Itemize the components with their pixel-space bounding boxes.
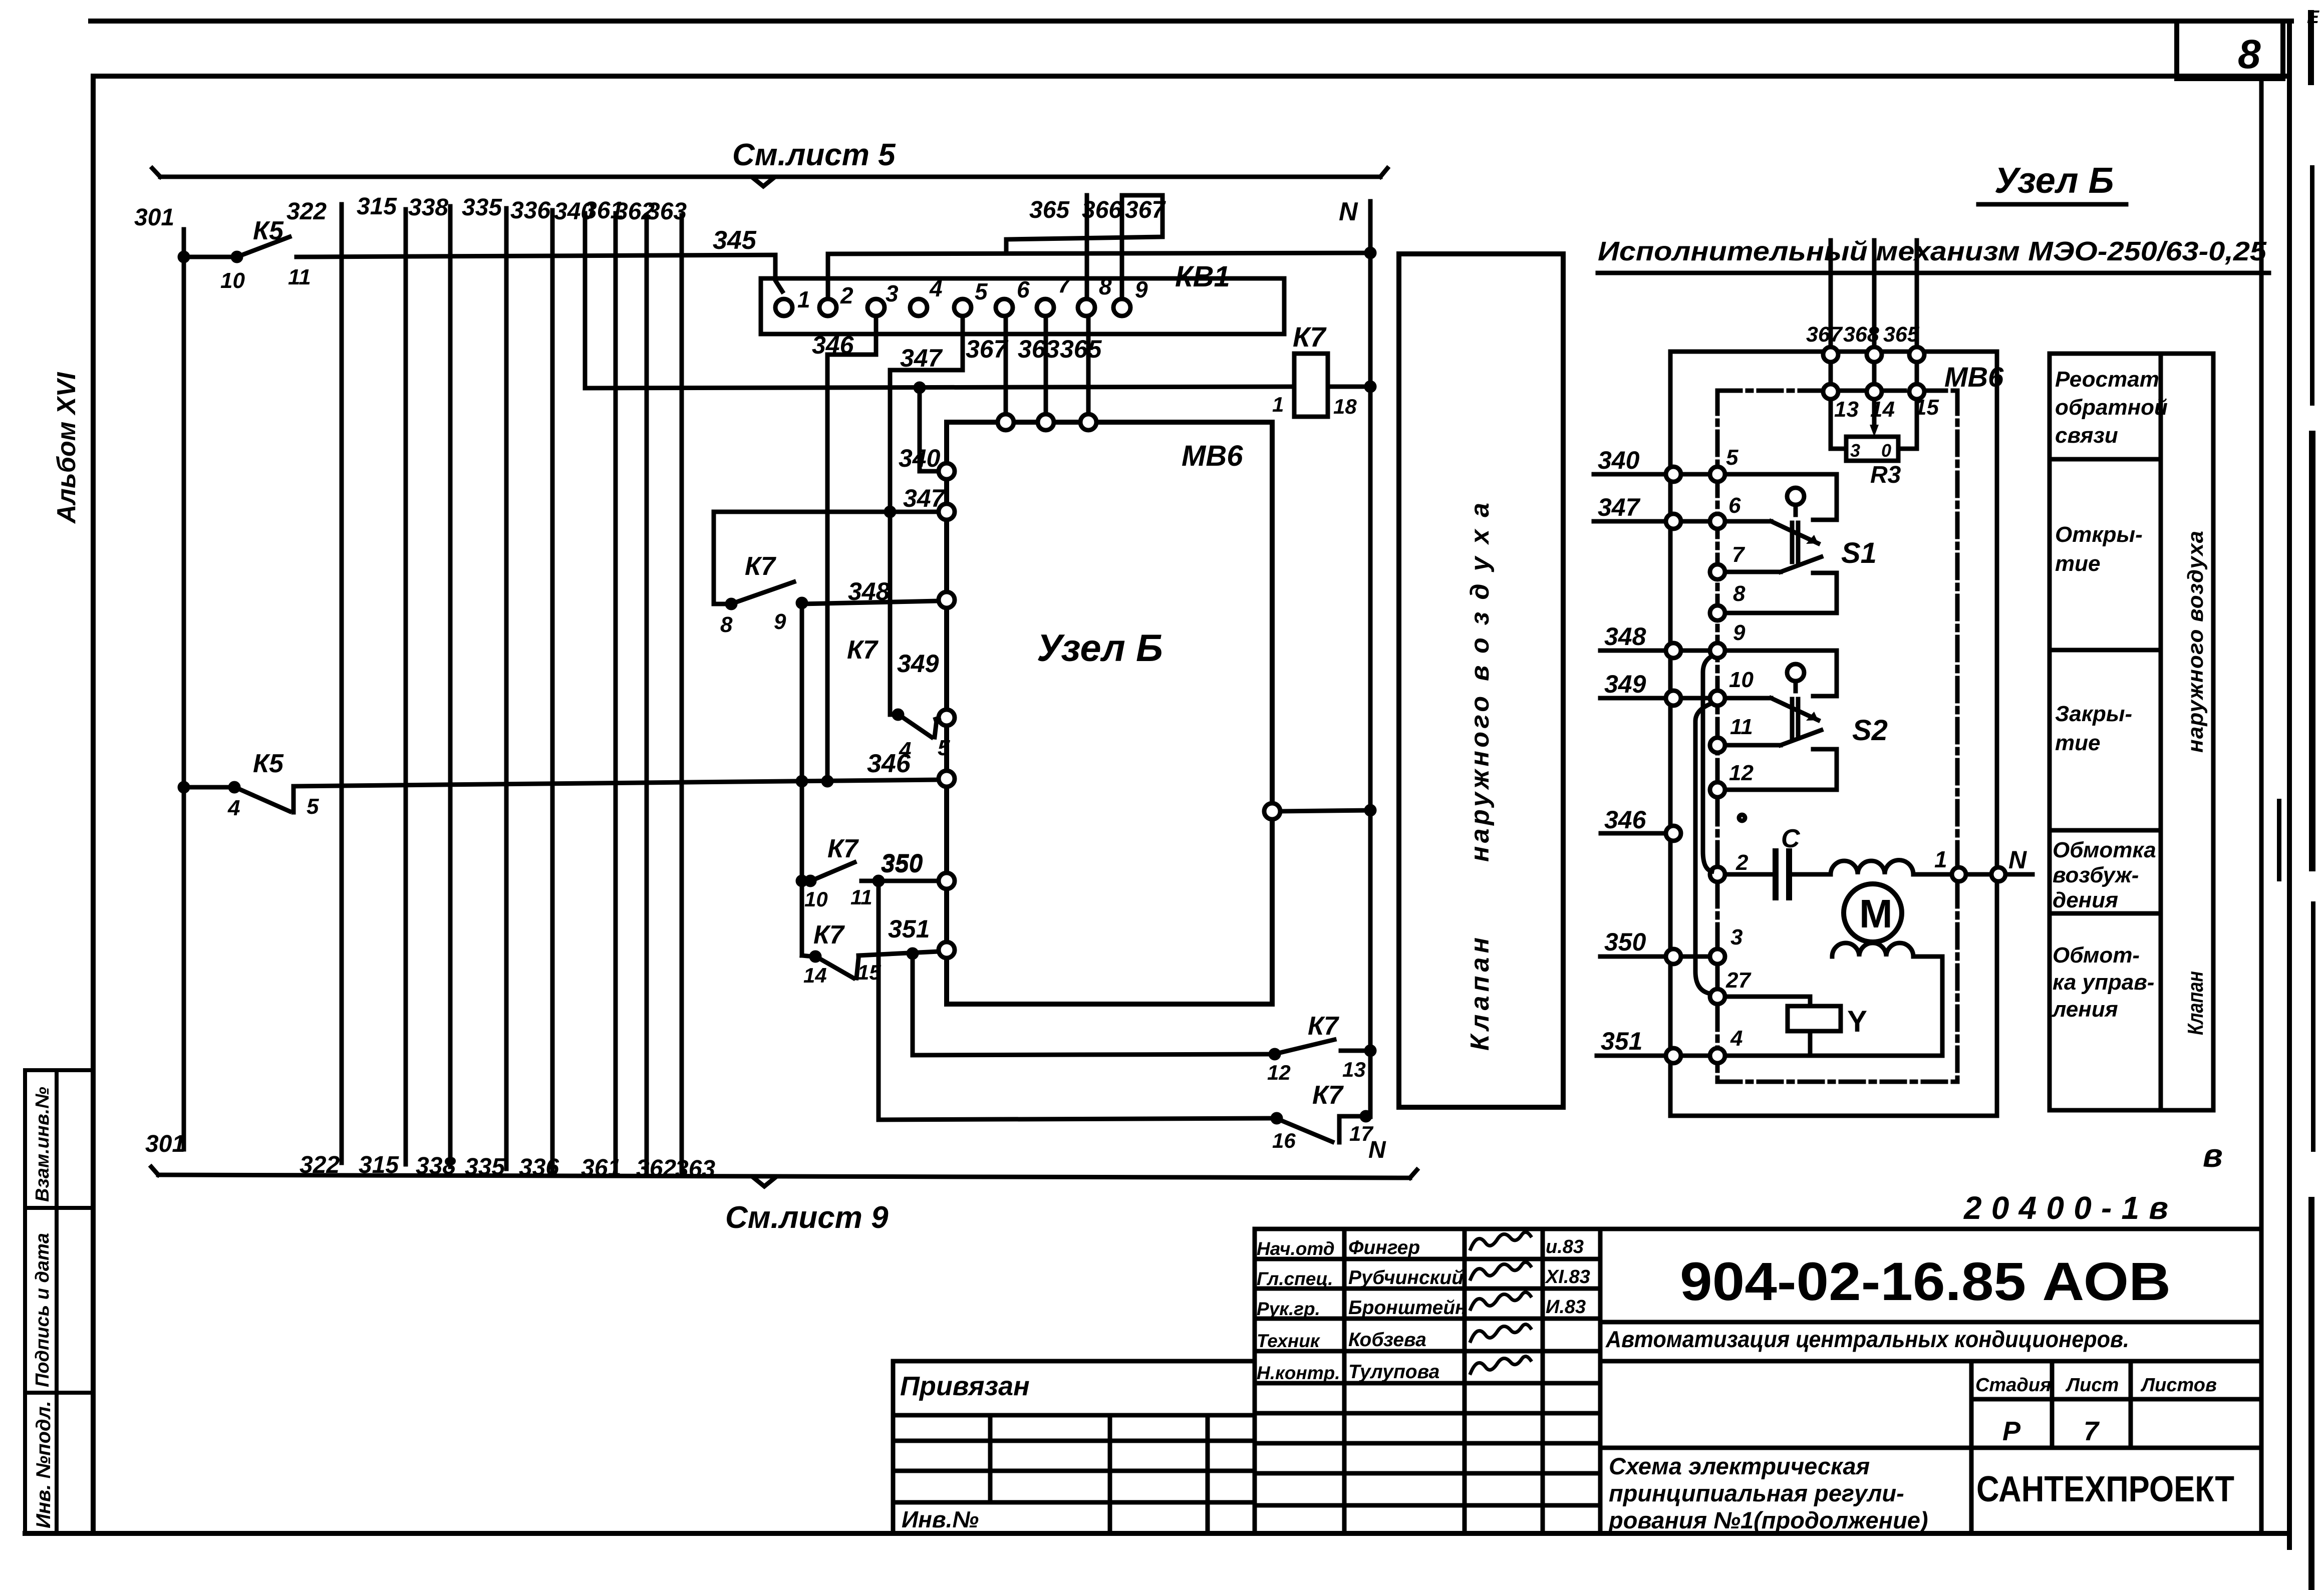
svg-text:350: 350 [881,850,923,878]
svg-text:См.лист 9: См.лист 9 [725,1200,889,1235]
node box top terminals [998,414,1096,430]
wire 315 vertical [357,193,406,1178]
node box Uzel B (MV6) [947,422,1272,1004]
wire 347 from KB1-5 [890,316,963,715]
valve box Klapan naruzhnogo vozduha [1399,254,1563,1107]
svg-text:и.83: и.83 [1546,1236,1584,1257]
svg-text:R3: R3 [1870,462,1901,488]
svg-text:Фингер: Фингер [1348,1237,1420,1258]
svg-text:Нач.отд: Нач.отд [1257,1238,1335,1259]
svg-text:М: М [1859,891,1893,936]
svg-text:Исполнительный механизм МЭО-25: Исполнительный механизм МЭО-250/63-0,25 [1598,236,2267,266]
svg-text:Инв. №подл.: Инв. №подл. [33,1401,55,1528]
staff row Н.контр. [1257,1361,1439,1383]
svg-text:346: 346 [812,331,854,359]
sheet number box 8 [2177,21,2283,79]
svg-text:И.83: И.83 [1546,1297,1586,1318]
terminal 4 / wire 351 [1597,1026,1742,1063]
cell Obmotka upravlenia [2052,943,2154,1022]
heading mechanism [1598,236,2269,273]
wire 351 down [913,953,1271,1055]
svg-text:6: 6 [1017,276,1030,302]
motor M [1844,884,1902,942]
wire 340 branch to node box [920,388,937,471]
border inner right line [2259,79,2264,1533]
contact K7 pins 16-17 [1272,1081,1386,1163]
wire down from pin 9 [798,604,806,956]
wire 363 from KB1-7 [1018,316,1060,415]
svg-text:351: 351 [1601,1027,1642,1055]
svg-text:8: 8 [2238,32,2261,77]
wire 367 up from KB1-9 [1120,195,1124,299]
svg-text:7: 7 [1058,271,1072,297]
svg-text:14: 14 [803,964,827,987]
wire 301 vertical [134,204,185,1157]
svg-text:МВ6: МВ6 [1944,361,2004,393]
svg-text:рования №1(продолжение): рования №1(продолжение) [1608,1507,1928,1533]
svg-text:13: 13 [1834,397,1859,422]
svg-text:365: 365 [1029,197,1070,223]
svg-text:Откры-: Откры- [2055,522,2143,547]
svg-text:13: 13 [1342,1058,1366,1081]
svg-text:К7: К7 [827,834,859,863]
svg-text:10: 10 [804,887,828,911]
svg-text:7: 7 [1732,542,1746,567]
staff row Рук.гр. [1257,1297,1586,1319]
svg-text:Тулупова: Тулупова [1348,1361,1439,1383]
svg-text:5: 5 [975,278,988,304]
signature 5 [1471,1356,1531,1373]
svg-text:16: 16 [1272,1129,1296,1152]
contact K7 pins 8-9 [714,552,939,637]
wire 367 mech [1806,240,1843,348]
bracket see sheet 5 [152,168,1387,186]
svg-text:Лист: Лист [2065,1375,2119,1396]
svg-text:в: в [2203,1137,2223,1174]
svg-text:336: 336 [519,1154,559,1181]
svg-text:8: 8 [1733,581,1746,606]
svg-text:368: 368 [1843,323,1879,347]
KB1 terminal 7 [1037,271,1072,316]
svg-text:1: 1 [797,286,810,312]
sidebar cell grid [25,1070,93,1533]
terminal 12 [1710,761,1754,797]
svg-text:322: 322 [300,1152,340,1178]
KB1 terminal 5 [954,278,988,316]
svg-text:1: 1 [1934,846,1947,872]
svg-text:365: 365 [1883,323,1920,347]
svg-text:Инв.№: Инв.№ [902,1506,979,1532]
resistor R3 [1831,399,1917,488]
svg-text:5: 5 [938,736,950,760]
svg-text:367: 367 [1125,197,1166,223]
svg-text:тие: тие [2055,551,2100,576]
svg-text:27: 27 [1725,968,1752,993]
svg-text:возбуж-: возбуж- [2053,863,2139,887]
wire 338 vertical [408,194,456,1179]
svg-text:Подпись и дата: Подпись и дата [32,1233,53,1387]
svg-text:Привязан: Привязан [900,1371,1030,1401]
capacitor C [1725,824,1831,897]
svg-text:363: 363 [1018,335,1060,363]
signature 4 [1471,1324,1531,1341]
svg-text:12: 12 [1729,761,1754,785]
wire coil to N stub [1913,846,2032,881]
svg-text:301: 301 [145,1131,185,1157]
svg-text:4: 4 [227,796,240,820]
svg-text:Н.контр.: Н.контр. [1257,1363,1340,1383]
svg-text:Гл.спец.: Гл.спец. [1257,1268,1333,1289]
svg-text:301: 301 [134,204,174,231]
svg-text:6: 6 [1728,493,1741,518]
paper edge streak [2277,10,2315,1590]
wire 345 to KB1 terminal 1 [297,226,782,291]
svg-text:362: 362 [636,1155,676,1182]
svg-text:Клапан: Клапан [2183,971,2208,1035]
svg-text:N: N [2008,846,2027,874]
svg-text:Узел Б: Узел Б [1994,161,2114,201]
mechanism outer box [1670,352,1997,1116]
R3 wiper arrow [1870,399,1879,437]
svg-text:363: 363 [647,198,687,225]
wire 322 vertical [286,198,342,1178]
bracket see sheet 9 [151,1167,1417,1186]
scheme description [1608,1453,1928,1533]
svg-text:351: 351 [888,915,930,943]
svg-text:4: 4 [899,738,911,762]
svg-text:Обмот-: Обмот- [2053,943,2140,968]
privyazan box [893,1361,1255,1533]
svg-text:Листов: Листов [2140,1375,2217,1396]
cell Zakrytie [2055,702,2132,755]
svg-text:346: 346 [1604,806,1647,834]
svg-text:8: 8 [720,612,733,637]
svg-text:10: 10 [1729,668,1754,692]
contact K7 pins 10-11 [798,834,939,911]
svg-text:349: 349 [897,650,939,678]
svg-text:принципиальная регули-: принципиальная регули- [1609,1480,1904,1506]
contact K5 pins 4-5 [180,749,319,820]
mech top terminals x3827 [1909,347,1924,399]
svg-text:2: 2 [840,282,853,308]
wire 347 to contact [714,508,939,604]
control winding coil [1832,943,1942,1056]
svg-text:338: 338 [416,1153,456,1179]
svg-text:САНТЕХПРОЕКТ: САНТЕХПРОЕКТ [1976,1469,2234,1509]
svg-text:Техник: Техник [1257,1331,1321,1351]
svg-text:350: 350 [1604,928,1646,956]
terminal 346 [1601,806,1745,841]
svg-text:МВ6: МВ6 [1182,440,1243,472]
svg-text:Р: Р [2002,1416,2021,1446]
overpass wire 365 [1006,195,1163,253]
svg-text:349: 349 [1604,670,1646,698]
svg-text:9: 9 [1135,276,1148,302]
svg-text:N: N [1339,197,1358,226]
svg-text:315: 315 [359,1152,399,1178]
svg-text:Рубчинский: Рубчинский [1348,1267,1464,1289]
signature 3 [1471,1292,1531,1309]
svg-text:365: 365 [1060,335,1102,363]
staff row Гл.спец. [1257,1266,1590,1289]
terminal 9 / wire 348 [1600,620,1746,658]
svg-text:3: 3 [1850,440,1860,461]
labels 13 14 15 [1834,395,1939,422]
wire 10 to 27 [1695,704,1711,994]
svg-text:Y: Y [1847,1005,1867,1038]
svg-text:Обмотка: Обмотка [2053,838,2156,862]
svg-text:3: 3 [1730,925,1742,949]
svg-text:S2: S2 [1852,714,1888,747]
switch S2 [1725,651,1888,790]
mech top terminals x3655 [1823,347,1838,399]
svg-text:ления: ления [2052,997,2118,1022]
svg-text:335: 335 [462,194,502,221]
svg-text:315: 315 [357,193,397,220]
terminal 5 / wire 340 [1594,445,1738,482]
svg-text:5: 5 [1726,445,1738,470]
svg-text:4: 4 [929,275,943,301]
signature 2 [1471,1262,1531,1279]
function table [2050,354,2213,1110]
svg-text:0: 0 [1881,440,1891,461]
contact K5 pins 10-11 [180,216,311,293]
svg-text:340: 340 [1598,446,1640,474]
terminal 3 / wire 350 [1600,925,1742,964]
terminal 6 / wire 347 [1594,493,1741,529]
svg-text:363: 363 [675,1156,715,1182]
svg-text:Автоматизация центральных конд: Автоматизация центральных кондиционеров. [1605,1326,2129,1352]
svg-text:C: C [1781,824,1801,853]
KB1 terminal 1 [775,286,810,316]
svg-text:N: N [1368,1137,1386,1163]
svg-text:340: 340 [899,444,941,472]
cell Otkrytie [2055,522,2143,576]
svg-text:345: 345 [713,226,757,255]
svg-text:обратной: обратной [2055,395,2168,420]
svg-text:дения: дения [2053,888,2118,912]
svg-text:К7: К7 [1312,1081,1344,1110]
svg-text:КВ1: КВ1 [1175,260,1230,293]
KB1 terminal 3 [867,280,899,316]
svg-text:связи: связи [2055,423,2118,448]
node box terminal 346 [939,771,955,787]
wire 366 up from KB1-8 [1085,195,1089,299]
svg-text:ка управ-: ка управ- [2053,970,2154,995]
wire 346 from KB1-3 [812,316,876,785]
wire 346 horizontal [294,749,938,786]
svg-text:Кобзева: Кобзева [1348,1329,1426,1351]
svg-text:Реостат: Реостат [2055,367,2159,392]
svg-text:3: 3 [886,280,899,306]
wire 365 from KB1-8 [1060,316,1102,415]
wire 335 vertical [462,194,506,1180]
svg-text:К5: К5 [253,216,284,245]
svg-text:Альбом XVI: Альбом XVI [52,372,81,524]
svg-text:К7: К7 [1308,1012,1339,1041]
cell Reostat [2055,367,2168,448]
KB1 terminal 4 [910,275,943,316]
signature 1 [1471,1232,1531,1249]
terminal 10 / wire 349 [1600,668,1754,706]
svg-text:347: 347 [903,484,946,512]
node box terminal 340 [899,444,955,479]
svg-text:18: 18 [1333,395,1357,418]
svg-text:347: 347 [1598,493,1641,521]
svg-text:4: 4 [1730,1026,1742,1051]
terminal 27 [1710,968,1752,1004]
svg-text:К5: К5 [253,749,284,778]
stadia list listov [1975,1375,2217,1446]
svg-text:322: 322 [286,198,327,225]
wire N horizontal from KB1-2 [828,197,1374,299]
KB1 terminal 2 [819,282,853,316]
svg-text:336: 336 [510,197,550,224]
terminal block KB1 [761,260,1284,334]
svg-text:XI.83: XI.83 [1545,1266,1590,1288]
mech top terminals x3742 [1867,347,1882,399]
switch S1 [1725,474,1877,613]
svg-text:наружного: наружного [1466,696,1495,862]
svg-text:12: 12 [1267,1061,1291,1084]
svg-text:Узел Б: Узел Б [1037,627,1163,670]
node box terminal 350 [881,849,955,889]
terminal 8 [1710,581,1746,620]
wire 340 vertical [554,198,594,388]
svg-text:К7: К7 [745,552,776,581]
terminal 2 [1710,850,1749,882]
svg-text:11: 11 [288,265,311,289]
svg-text:Стадия: Стадия [1975,1375,2051,1396]
field winding coil [1831,860,1913,875]
svg-text:2: 2 [1735,850,1749,875]
staff row Техник [1257,1329,1426,1351]
svg-text:Рук.гр.: Рук.гр. [1257,1299,1320,1319]
svg-text:К7: К7 [1293,321,1327,353]
svg-text:11: 11 [850,885,873,909]
svg-text:8: 8 [1099,273,1112,299]
wire 367 from KB1-6 [966,316,1009,415]
KB1 terminal 6 [996,276,1030,316]
svg-text:К7: К7 [813,920,845,949]
node box terminal 347 [903,484,955,520]
solenoid Y [1725,997,1867,1056]
svg-text:367: 367 [966,335,1009,363]
svg-text:9: 9 [1733,620,1746,645]
svg-text:См.лист 5: См.лист 5 [732,138,896,172]
staff row Нач.отд [1257,1236,1584,1259]
svg-text:10: 10 [220,268,245,293]
node box terminal 351 [888,915,955,958]
svg-text:9: 9 [774,609,786,634]
wire 363 vertical [647,198,715,1182]
wire 368 mech [1843,240,1879,348]
svg-text:904-02-16.85 АОВ: 904-02-16.85 АОВ [1680,1251,2171,1312]
title block grid [1255,1229,2261,1533]
svg-text:366: 366 [1082,197,1122,223]
svg-text:335: 335 [465,1154,505,1180]
svg-text:Взам.инв.№: Взам.инв.№ [32,1087,53,1202]
wire 350 down [879,881,1273,1120]
svg-text:367: 367 [1806,323,1843,347]
wire coil to N [1328,383,1374,391]
node box terminal 349 [897,650,955,726]
wire terminal 4 line [1725,1054,1942,1058]
svg-text:К7: К7 [847,635,879,665]
svg-text:7: 7 [2084,1416,2100,1446]
terminal 7 [1710,542,1746,579]
svg-text:тие: тие [2055,731,2100,755]
contact K7 pins 12-13 [1267,1012,1374,1084]
wire 365 mech [1883,240,1920,348]
svg-text:11: 11 [1730,715,1753,739]
svg-text:наружного воздуха: наружного воздуха [2183,531,2208,753]
relay coil K7 [1272,321,1357,418]
svg-text:S1: S1 [1841,537,1877,569]
contact K7 pins 4-5 [847,635,950,762]
KB1 terminal 8 [1078,273,1112,316]
terminal 11 [1710,715,1753,753]
svg-text:1: 1 [1272,393,1284,416]
cell Obmotka vozbuzhdenia [2053,838,2156,912]
wire 9 to 2 [1703,656,1712,871]
wire 361 vertical [581,197,624,1181]
svg-text:361: 361 [581,1155,621,1181]
wire N vertical [1368,201,1373,1117]
svg-text:Бронштейн: Бронштейн [1348,1297,1467,1319]
svg-text:338: 338 [408,194,448,221]
wire 340 run to coil [585,213,1294,392]
node box terminal 348 [848,577,955,608]
node box right terminal [1264,803,1374,819]
KB1 terminal 9 [1113,276,1148,316]
heading Uzel B [1978,161,2126,204]
wire 362 vertical [615,198,676,1182]
contact K7 pins 14-15 [802,920,939,987]
svg-text:5: 5 [307,794,319,819]
svg-text:348: 348 [1604,622,1646,651]
svg-text:Схема электрическая: Схема электрическая [1609,1453,1870,1479]
mechanism dashdot boundary MV6 [1717,391,1957,1082]
border outer top line [91,19,2291,24]
svg-text:347: 347 [900,344,943,372]
wire 336 vertical [510,197,559,1181]
svg-text:Закры-: Закры- [2055,702,2132,726]
